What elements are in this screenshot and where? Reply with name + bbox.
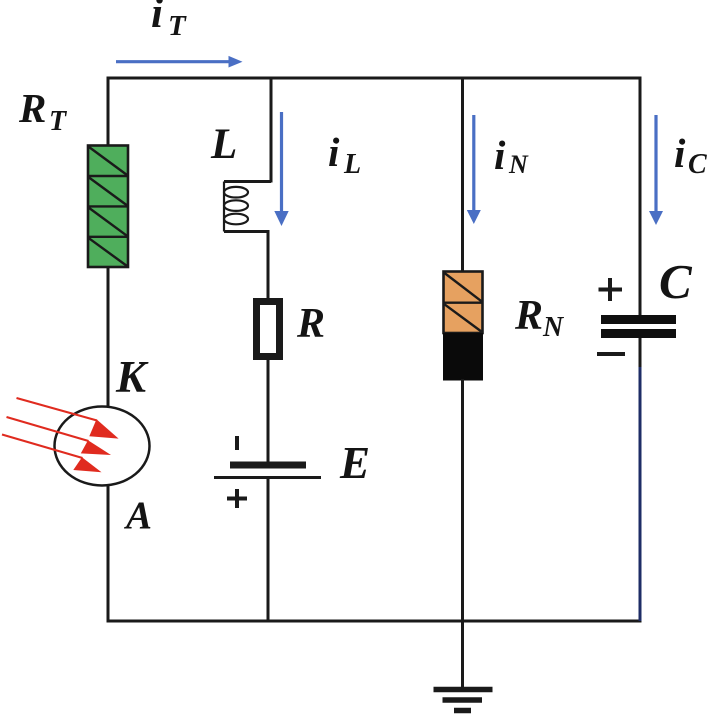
phototube K/A (circle) — [55, 407, 150, 486]
svg-text:R: R — [18, 85, 46, 131]
resistor RT (green hatched) — [88, 146, 128, 268]
resistor R — [257, 302, 280, 357]
svg-text:R: R — [514, 293, 543, 339]
wire left branch lower — [107, 485, 110, 623]
wire R to battery — [267, 358, 270, 463]
inductor L — [224, 182, 271, 232]
svg-text:K: K — [115, 352, 149, 402]
light ray arrow 2 — [7, 417, 112, 455]
ground — [434, 690, 493, 711]
svg-text:C: C — [688, 149, 707, 180]
svg-text:i: i — [674, 130, 686, 176]
svg-text:L: L — [210, 121, 237, 168]
current arrow iT — [116, 56, 243, 68]
wire left branch mid — [107, 266, 110, 408]
wire RN branch upper — [461, 77, 464, 273]
svg-text:N: N — [542, 312, 565, 343]
wire C below (black stub) — [639, 338, 642, 368]
wire left branch upper — [107, 77, 110, 147]
svg-text:A: A — [123, 494, 152, 537]
svg-text:i: i — [494, 132, 506, 178]
svg-text:i: i — [328, 129, 340, 175]
svg-text:E: E — [339, 438, 370, 488]
light ray arrow 3 — [2, 435, 102, 473]
battery E — [214, 436, 321, 508]
wire C branch upper — [639, 77, 642, 317]
wire RN to bottom and ground — [461, 379, 464, 687]
svg-text:i: i — [151, 0, 163, 37]
svg-text:R: R — [296, 301, 325, 347]
light ray arrow 1 — [17, 398, 119, 439]
wire C below (navy) — [639, 367, 642, 621]
wire L branch upper — [270, 77, 273, 183]
svg-text:T: T — [49, 106, 68, 137]
svg-text:T: T — [168, 10, 187, 42]
resistor RN (thermistor, orange/black) — [443, 272, 483, 381]
wire top bus — [107, 77, 642, 80]
capacitor C — [597, 278, 676, 354]
current arrow iN — [467, 115, 481, 224]
wire L to R — [267, 230, 270, 301]
svg-text:N: N — [508, 150, 529, 179]
wire bottom bus — [107, 620, 642, 623]
wire battery to bottom — [267, 479, 270, 621]
svg-text:L: L — [343, 149, 361, 180]
current arrow iC — [649, 115, 663, 225]
current arrow iL — [274, 112, 288, 226]
svg-text:C: C — [659, 254, 693, 309]
